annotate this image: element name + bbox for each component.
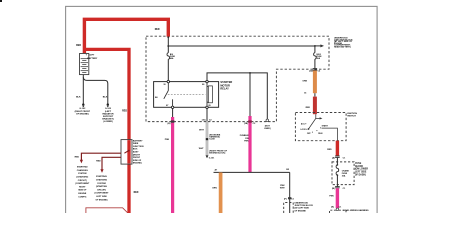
junction box B2 on long red vertical [121, 140, 132, 165]
corner mark [0, 0, 2, 2]
fuse F3 crank fuse [337, 164, 339, 166]
svg-text:CHARGING: CHARGING [96, 179, 108, 182]
ground G-102 [75, 103, 91, 115]
svg-text:(CHARGING: (CHARGING [76, 176, 88, 179]
arrow feed continues [320, 44, 324, 47]
ignition switch internals [315, 114, 317, 118]
svg-text:CHARGING: CHARGING [77, 169, 89, 172]
svg-text:SIDE OF: SIDE OF [78, 190, 87, 192]
svg-text:RED: RED [76, 45, 81, 47]
svg-text:RED: RED [96, 160, 101, 162]
svg-text:STARTING/: STARTING/ [96, 175, 107, 178]
ignition contacts [305, 123, 306, 124]
label FUSE BLOCK [355, 163, 368, 176]
svg-text:BLK: BLK [76, 97, 81, 99]
connector F C1 [288, 197, 291, 199]
svg-text:15: 15 [304, 93, 307, 95]
wire into fuse [336, 158, 338, 165]
svg-text:OF ENGINE): OF ENGINE) [96, 199, 108, 201]
svg-text:FUSE: FUSE [355, 163, 362, 165]
wire PNK starter feed [171, 117, 174, 213]
off-page flag banner [86, 208, 128, 213]
svg-text:C1: C1 [343, 158, 347, 160]
svg-text:OFF: OFF [307, 133, 312, 135]
svg-text:BOX: BOX [133, 149, 138, 151]
svg-text:C1: C1 [343, 188, 347, 190]
svg-text:ASSY: ASSY [133, 151, 139, 154]
ignition switch dashed box [295, 113, 346, 141]
wire relay 87 output [172, 108, 174, 117]
svg-text:86: 86 [202, 84, 205, 86]
wire RED ignition START output [336, 141, 339, 156]
svg-text:(ON LOWER: (ON LOWER [355, 169, 368, 171]
svg-text:BLK: BLK [103, 97, 108, 99]
cowl harness dashed box [330, 210, 347, 213]
svg-text:FRONT: FRONT [133, 157, 141, 159]
node fuse1 junction [167, 45, 169, 47]
svg-text:A7: A7 [215, 169, 219, 172]
svg-text:BLOCK: BLOCK [355, 166, 363, 168]
svg-text:(AT LEFT SIDE: (AT LEFT SIDE [294, 207, 309, 210]
svg-text:COWL WIRING HARNESS: COWL WIRING HARNESS [343, 209, 369, 212]
wire RED branch to starting circuit [102, 157, 121, 170]
ground G-105 [102, 103, 114, 123]
wire RED thick to ignition switch [313, 97, 317, 115]
svg-text:(LOWER): (LOWER) [103, 121, 113, 123]
junction block dashed outline (UNDERHOOD JUNCTION BLOCK) [146, 36, 329, 121]
wire bus A7-B2 [214, 171, 290, 173]
svg-text:MOTOR: MOTOR [220, 83, 230, 87]
svg-text:C1: C1 [339, 207, 343, 209]
node junction at 250 [249, 72, 251, 74]
wire drop from relay bus to C2 [249, 73, 251, 116]
wire battery negative to grounds [83, 75, 108, 104]
node red entry dot [167, 36, 169, 38]
svg-text:SYSTEM: SYSTEM [97, 183, 106, 185]
svg-text:G-101: G-101 [209, 157, 215, 159]
node splice [314, 93, 316, 96]
terminal cowl harness [336, 208, 339, 211]
svg-text:(B): (B) [168, 123, 171, 125]
label STARTER MOTOR RELAY [220, 80, 232, 91]
svg-text:PNK: PNK [165, 139, 170, 141]
svg-text:LEFT: LEFT [89, 55, 95, 57]
fuse block dashed box [332, 162, 354, 185]
svg-text:30A: 30A [342, 175, 346, 178]
svg-text:USED): USED) [264, 128, 271, 130]
svg-text:S-208: S-208 [209, 139, 215, 141]
svg-text:JUNCTION: JUNCTION [133, 146, 144, 148]
wire RED battery feed: up, across, down into junction block [84, 19, 168, 53]
relay mechanical link [168, 93, 206, 95]
svg-text:OF ENGINE): OF ENGINE) [76, 113, 89, 115]
svg-text:PNK: PNK [244, 140, 249, 142]
svg-text:C2: C2 [209, 119, 213, 121]
svg-text:LEFT SIDE: LEFT SIDE [96, 196, 107, 198]
wire PNK to A7 bus [248, 116, 251, 172]
svg-text:CIRCUIT): CIRCUIT) [78, 180, 87, 182]
svg-text:RELAY: RELAY [220, 87, 229, 91]
svg-text:CIRCUIT): CIRCUIT) [97, 189, 106, 191]
node fuse2 junction [314, 45, 316, 47]
svg-text:SWITCH: SWITCH [347, 116, 356, 118]
svg-text:CRANK: CRANK [342, 169, 350, 172]
svg-text:RED: RED [75, 156, 80, 158]
wire ORN starter motor feed [219, 172, 223, 213]
svg-text:ENGINE): ENGINE) [133, 163, 142, 165]
svg-text:BRACKET): BRACKET) [102, 118, 113, 121]
wire PNK to cowl harness [336, 188, 339, 208]
svg-text:(A): (A) [332, 157, 335, 160]
splice S-208 [206, 138, 208, 140]
svg-text:RED: RED [306, 107, 311, 109]
svg-text:C2: C2 [253, 123, 257, 125]
wire relay 85 coil ground (white wire) [206, 108, 208, 121]
svg-text:ENGINE BLOCK): ENGINE BLOCK) [209, 153, 225, 155]
svg-text:OF DASH): OF DASH) [355, 173, 366, 176]
wire ORN thick ignition feed [313, 71, 317, 94]
connector B C1 [335, 186, 340, 187]
svg-text:30: 30 [163, 84, 166, 86]
svg-text:STARTER: STARTER [220, 80, 232, 84]
svg-text:SYSTEM: SYSTEM [78, 173, 87, 175]
svg-text:WHT: WHT [199, 148, 204, 150]
wire RED branch: across, down long left vertical [84, 49, 129, 213]
connector A C1 [335, 156, 340, 157]
svg-text:RED: RED [122, 110, 127, 112]
svg-text:STARTING/: STARTING/ [77, 166, 88, 169]
svg-text:NEAR BATTERY): NEAR BATTERY) [334, 46, 351, 49]
wire relay 86 feed bus y73 [207, 73, 267, 119]
svg-text:(B): (B) [332, 188, 335, 190]
junction block 2 dashed box [284, 203, 294, 214]
svg-text:RED: RED [327, 149, 332, 151]
svg-text:WIRE: WIRE [133, 143, 139, 145]
svg-text:(COMPONENT: (COMPONENT [75, 183, 90, 185]
svg-text:ENGINE: ENGINE [78, 193, 86, 195]
page frame [66, 6, 378, 218]
svg-text:C1: C1 [291, 199, 295, 201]
svg-text:BATTERY: BATTERY [133, 139, 143, 142]
svg-text:C2: C2 [318, 71, 322, 73]
battery B1 (LEFT BATTERY) [80, 54, 98, 75]
svg-text:WHT: WHT [280, 188, 285, 190]
fuse F2 30A [314, 46, 323, 72]
svg-text:RADIATOR: RADIATOR [102, 112, 114, 115]
connector B [171, 120, 175, 122]
svg-text:BATTERY: BATTERY [87, 57, 98, 60]
wire battery feed bus y46 [168, 37, 320, 46]
wire right drop to junction block 2 [289, 172, 291, 213]
relay coil [207, 83, 212, 107]
fuse F1 40A [167, 46, 176, 81]
connector 1B C2 [248, 120, 252, 122]
relay K1 starter motor relay box [154, 82, 219, 108]
relay terminals [167, 80, 208, 108]
connector 2D C2 ignition feed [313, 69, 317, 70]
svg-text:B2: B2 [286, 169, 290, 171]
svg-text:OF ENGINE: OF ENGINE [294, 210, 306, 212]
svg-text:COMPT): COMPT) [78, 196, 86, 198]
svg-text:LEFT SIDE: LEFT SIDE [355, 172, 367, 174]
svg-text:RED: RED [134, 192, 139, 194]
svg-text:START: START [322, 125, 329, 128]
svg-text:RIGHT: RIGHT [79, 186, 86, 188]
svg-text:ORN: ORN [302, 80, 307, 82]
svg-text:(F): (F) [284, 199, 287, 201]
svg-text:(2D): (2D) [309, 71, 313, 73]
svg-text:(1B): (1B) [244, 123, 248, 125]
svg-text:(RIGHT: (RIGHT [133, 154, 141, 156]
note starting system reference [95, 175, 110, 201]
svg-text:ORN: ORN [212, 187, 217, 189]
svg-text:(K): (K) [331, 207, 334, 209]
ground G-101 [206, 155, 209, 158]
note charging system reference [75, 166, 90, 199]
svg-text:WHT: WHT [199, 129, 204, 131]
svg-text:(10): (10) [202, 119, 206, 121]
svg-text:LOCK: LOCK [300, 129, 306, 131]
relay switch [164, 83, 173, 107]
svg-text:B6: B6 [155, 97, 158, 99]
svg-text:PNK: PNK [329, 196, 334, 198]
svg-text:RUN: RUN [318, 133, 323, 135]
svg-text:RED: RED [155, 29, 160, 31]
svg-text:(STARTING: (STARTING [96, 185, 107, 188]
svg-text:ACC: ACC [301, 122, 306, 125]
wire START output [322, 128, 338, 141]
node branch tap [124, 150, 129, 153]
svg-text:(COMPONENT: (COMPONENT [95, 193, 110, 195]
svg-text:SIDE OF: SIDE OF [133, 160, 142, 162]
wire RED branch to charging circuit [81, 153, 121, 160]
terminal NOT USED [266, 119, 269, 122]
relay pin labels [155, 84, 212, 107]
annotation UNDERHOOD JUNCTION BLOCK [334, 38, 353, 49]
